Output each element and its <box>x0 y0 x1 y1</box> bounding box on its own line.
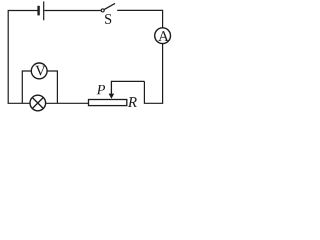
rheostat slider arrow shaft <box>110 81 112 95</box>
lamp L1 cross <box>32 98 43 109</box>
wire left vertical + bottom-left to lamp <box>8 102 30 104</box>
lamp L1 circle <box>30 95 46 111</box>
wire switch to top-right corner and down to ammeter <box>117 10 162 27</box>
voltmeter V1 circle <box>31 63 47 79</box>
wire bottom: lamp to rheostat <box>46 102 89 104</box>
label S (switch) <box>105 14 111 24</box>
label V (voltmeter) <box>35 66 45 76</box>
voltmeter branch right leg <box>47 71 57 103</box>
switch S lever (open) <box>104 3 115 9</box>
wire slider horizontal <box>111 80 144 82</box>
battery BT1 negative plate (short thick) <box>37 6 39 16</box>
rheostat slider arrowhead <box>109 94 115 99</box>
switch S pivot <box>101 9 104 12</box>
voltmeter branch left leg <box>22 71 31 103</box>
label R (rheostat) <box>128 97 137 107</box>
ammeter A1 circle <box>155 28 171 44</box>
label A (ammeter) <box>158 31 169 41</box>
label P (slider) <box>97 85 105 94</box>
wire top-left: battery to left corner <box>8 11 38 104</box>
wire bottom-right: rheostat riser to ammeter <box>144 81 163 103</box>
wire ammeter down right side <box>162 44 164 104</box>
battery BT1 positive plate (long thin) <box>43 1 45 20</box>
rheostat R1 body <box>89 100 127 106</box>
wire battery to switch <box>44 10 101 12</box>
